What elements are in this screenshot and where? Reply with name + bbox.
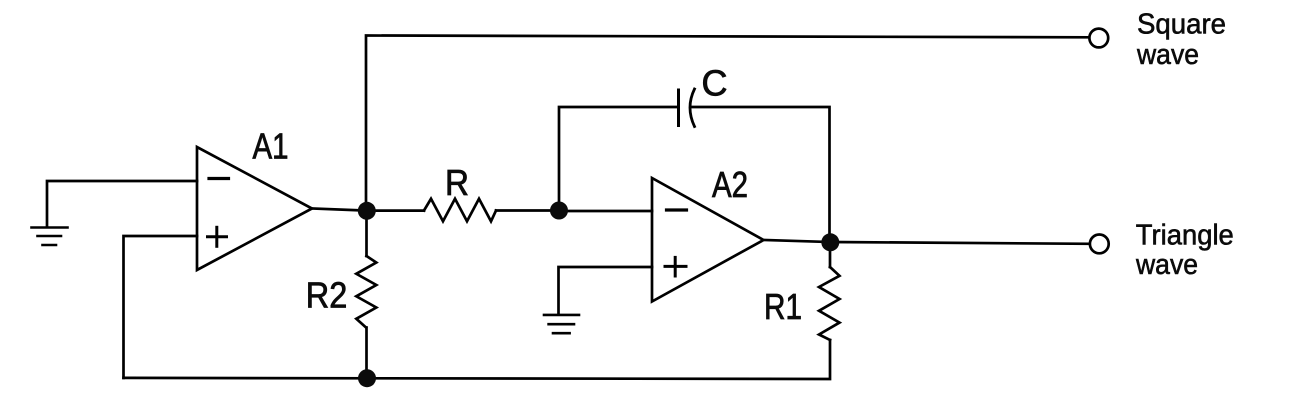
wire: node N2 to A2 inverting input — [559, 210, 652, 213]
svg-text:R: R — [445, 162, 469, 203]
svg-text:R2: R2 — [306, 274, 348, 315]
wire: node N3 down to resistor R1 — [829, 242, 832, 267]
wire: resistor R2 to bottom node N4 — [365, 328, 368, 379]
op-amp A1 — [197, 147, 312, 270]
node N4 junction dot — [358, 369, 376, 387]
A1 non-inverting input plus symbol — [208, 227, 227, 246]
wire: bottom feedback rail — [124, 340, 831, 379]
wire: square wave output rail (node N1 up and right) — [366, 36, 1088, 211]
terminal: square wave output — [1089, 29, 1108, 48]
wire: node N1 down to resistor R2 — [365, 211, 368, 256]
svg-text:R1: R1 — [764, 286, 802, 327]
svg-text:A2: A2 — [712, 164, 748, 205]
node N2 junction dot — [550, 202, 568, 220]
wire: A1 output to node N1 — [312, 209, 366, 211]
wire: capacitor C to A2 output — [691, 107, 830, 240]
A1 inverting input minus symbol — [209, 177, 229, 180]
wire: node N1 to resistor R — [367, 209, 424, 212]
wire: A2 output to node N3 — [764, 240, 831, 242]
ground G2 (at A2 non-inverting input) — [544, 315, 579, 333]
wire: A1 non-inverting input feedback from bottom rail — [124, 236, 198, 378]
A2 inverting input minus symbol — [667, 208, 687, 211]
node N3 junction dot — [821, 233, 839, 251]
resistor R — [424, 199, 496, 222]
capacitor C right curved plate — [690, 89, 695, 127]
svg-text:wave: wave — [1136, 39, 1199, 71]
wire: triangle wave output — [830, 242, 1089, 244]
node N1 junction dot — [358, 202, 376, 220]
ground G1 (left, at A1 inverting input) — [32, 228, 68, 246]
svg-text:Square: Square — [1137, 9, 1226, 41]
capacitor C left plate — [677, 90, 680, 126]
terminal: triangle wave output — [1090, 235, 1109, 254]
wire: A1 inverting input from ground — [47, 181, 197, 226]
wire: capacitor feedback loop left side — [559, 107, 678, 211]
wire: resistor R to node N2 — [496, 209, 559, 212]
A2 non-inverting input plus symbol — [665, 257, 686, 276]
resistor R1 — [819, 267, 840, 340]
svg-text:A1: A1 — [253, 126, 289, 167]
svg-text:wave: wave — [1135, 249, 1198, 281]
wire: A2 non-inverting input to ground — [559, 267, 653, 314]
resistor R2 — [356, 256, 376, 328]
op-amp A2 — [652, 178, 764, 302]
svg-text:Triangle: Triangle — [1136, 219, 1234, 251]
svg-text:C: C — [702, 63, 728, 104]
